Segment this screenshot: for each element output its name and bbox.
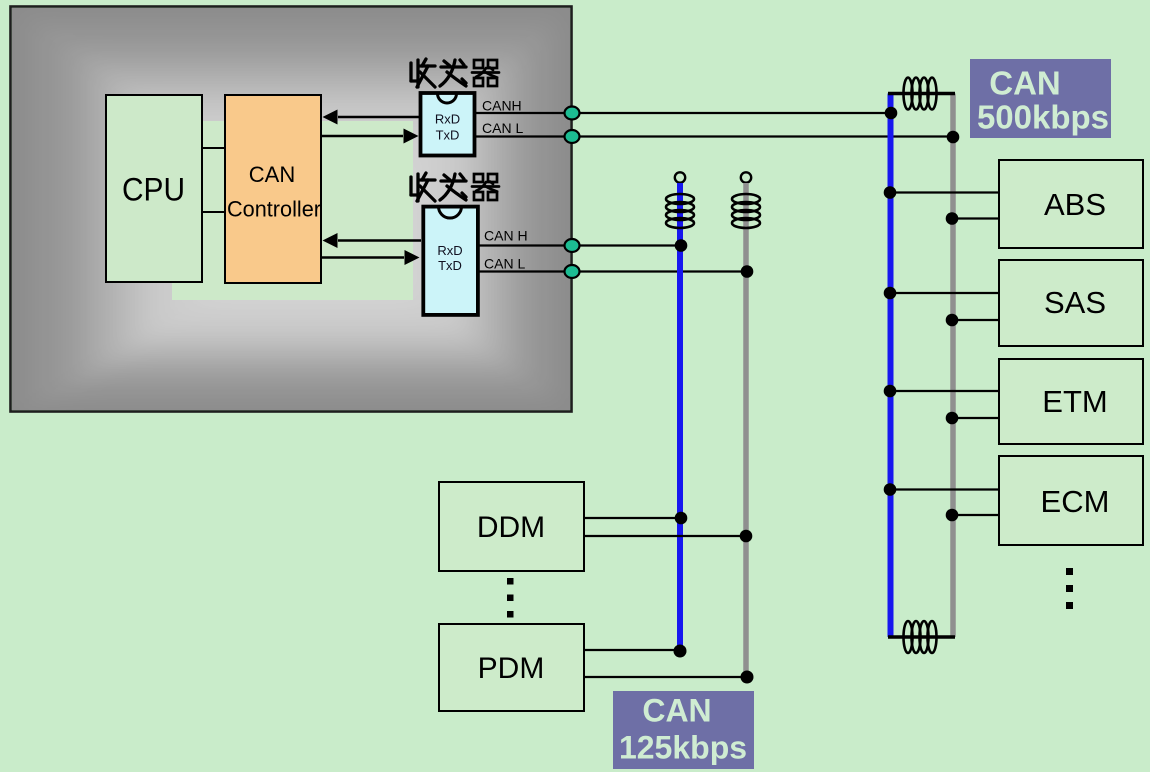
node CAN L pad — [565, 130, 580, 143]
ellipsis below ECM — [1066, 568, 1073, 609]
svg-text:PDM: PDM — [478, 652, 545, 685]
ECU node (gray gradient module box) — [0, 0, 610, 445]
DDM module — [439, 482, 584, 571]
bottom terminator coil — [904, 621, 937, 653]
svg-text:TxD: TxD — [438, 258, 462, 273]
wire SAS low — [953, 319, 999, 321]
svg-text:CAN L: CAN L — [484, 256, 525, 272]
SAS module — [999, 260, 1143, 346]
wire ABS low — [953, 217, 999, 219]
junction ECM low — [946, 509, 959, 522]
label transceiver 2 (收发器) — [411, 173, 499, 201]
wire ETM low — [953, 417, 999, 419]
svg-text:CAN L: CAN L — [482, 120, 523, 136]
junction SAS high — [884, 287, 897, 300]
junction SAS low — [946, 314, 959, 327]
svg-text:ECM: ECM — [1041, 484, 1110, 519]
svg-text:CAN: CAN — [989, 65, 1061, 102]
wire CPU-controller lower — [202, 211, 225, 213]
wire DDM to blue bus — [584, 517, 680, 519]
svg-text:ETM: ETM — [1042, 384, 1107, 419]
junction ETM low — [946, 412, 959, 425]
junction PDM blue (bus end) — [674, 645, 687, 658]
svg-text:CANH: CANH — [482, 98, 522, 114]
inner green region — [172, 121, 413, 300]
CAN125 bus low line (gray) — [741, 172, 751, 677]
wire ETM high — [890, 390, 999, 392]
junction U4 CANH on blue — [675, 239, 688, 252]
CAN125 bus high line (blue) — [675, 172, 685, 651]
junction DDM blue — [675, 512, 688, 525]
wire SAS high — [890, 292, 999, 294]
wire CPU-controller upper — [202, 147, 225, 149]
wire CANH U3 to CAN500 bus high — [476, 112, 888, 114]
wire CAN H U4 to CAN125 bus high — [479, 244, 681, 246]
CAN500 bus high line (blue) — [888, 94, 894, 638]
junction U4 CANL on gray — [741, 265, 754, 278]
CPU U1 — [106, 95, 202, 282]
svg-text:CAN: CAN — [249, 162, 295, 187]
svg-text:ABS: ABS — [1044, 187, 1106, 222]
transceiver U4 — [423, 207, 478, 315]
svg-text:TxD: TxD — [436, 128, 460, 143]
ellipsis between DDM and PDM — [507, 578, 514, 618]
svg-text:Controller: Controller — [227, 197, 321, 222]
node CAN L pad — [565, 265, 580, 278]
label CAN 125kbps — [613, 691, 754, 769]
svg-text:RxD: RxD — [435, 112, 460, 127]
junction ECM high — [884, 483, 897, 496]
wire ECM low — [953, 514, 999, 516]
junction PDM gray (bus end) — [741, 671, 754, 684]
bottom terminator wire — [888, 635, 955, 639]
wire PDM to gray bus — [584, 676, 747, 678]
node CAN H pad — [565, 239, 580, 252]
svg-text:CPU: CPU — [122, 172, 185, 208]
svg-text:125kbps: 125kbps — [619, 730, 747, 766]
junction DDM gray — [740, 530, 753, 543]
junction ABS low — [946, 212, 959, 225]
wire PDM to blue bus — [584, 649, 680, 651]
arrow RxD U3 to controller — [323, 110, 420, 125]
wire CAN L U4 to CAN125 bus low — [479, 270, 747, 272]
transceiver U3 — [421, 93, 475, 156]
CAN Controller U2 — [225, 95, 321, 283]
PDM module — [439, 624, 584, 711]
node CANH pad — [565, 107, 580, 120]
top terminator coil — [904, 78, 937, 110]
label CAN 500kbps — [970, 59, 1111, 138]
svg-text:RxD: RxD — [437, 243, 462, 258]
svg-text:SAS: SAS — [1044, 285, 1106, 320]
junction CANL on CAN500 low — [947, 131, 960, 144]
svg-text:500kbps: 500kbps — [977, 99, 1109, 136]
arrow TxD controller to U4 — [321, 250, 420, 265]
junction ABS high — [884, 186, 897, 199]
svg-text:CAN: CAN — [642, 693, 711, 729]
svg-text:CAN H: CAN H — [484, 228, 528, 244]
CAN500 bus low line (gray) — [950, 94, 956, 638]
ETM module — [999, 359, 1143, 444]
arrow TxD controller to U3 — [321, 129, 419, 144]
junction CANH on CAN500 high — [885, 107, 898, 120]
wire ECM high — [890, 488, 999, 490]
ECM module — [999, 456, 1143, 545]
junction ETM high — [884, 385, 897, 398]
ABS module — [999, 160, 1143, 248]
label transceiver 1 (收发器) — [411, 59, 499, 87]
wire ABS high — [890, 191, 999, 193]
wire CAN L U3 to CAN500 bus low — [476, 135, 951, 137]
terminator coil on CAN125 high — [666, 194, 694, 228]
arrow RxD U4 to controller — [323, 233, 422, 248]
wire DDM to gray bus — [584, 535, 746, 537]
top terminator wire — [888, 92, 955, 96]
terminator coil on CAN125 low — [732, 194, 760, 228]
svg-text:DDM: DDM — [477, 511, 545, 544]
